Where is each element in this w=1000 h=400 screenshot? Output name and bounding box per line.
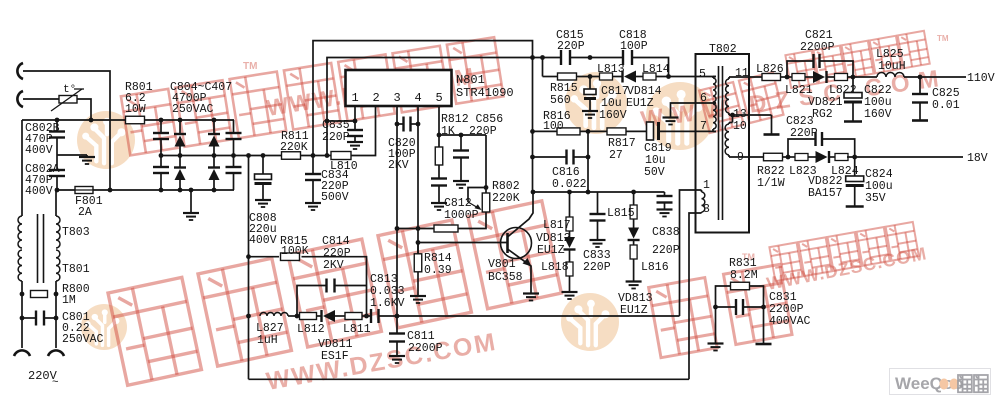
capacitor C817 electrolytic: [589, 77, 591, 90]
watermark logo circle T802 area: [646, 82, 714, 150]
resistor R814: [417, 243, 419, 255]
svg-text:100: 100: [543, 120, 564, 133]
svg-text:110V: 110V: [967, 72, 995, 85]
svg-text:220P: 220P: [557, 40, 585, 53]
svg-text:220P: 220P: [652, 244, 680, 257]
svg-text:6: 6: [700, 92, 707, 105]
inductor L817: [569, 192, 571, 217]
pin 11 wire: [729, 76, 762, 78]
svg-text:L811: L811: [343, 323, 371, 336]
svg-text:50V: 50V: [644, 166, 665, 179]
svg-text:1/1W: 1/1W: [757, 177, 785, 190]
svg-text:1K: 1K: [441, 125, 455, 138]
inductor L816: [633, 240, 635, 245]
T802 secondary winding 11-13: [726, 79, 729, 113]
rail continues to pin1 vertical: [379, 315, 680, 317]
svg-text:L812: L812: [297, 323, 325, 336]
series resistor to base row: [434, 225, 458, 232]
svg-text:0.01: 0.01: [932, 99, 960, 112]
base wire to V801: [418, 242, 508, 244]
svg-text:L814: L814: [642, 63, 670, 76]
top wire y=57.5 with C815/C818: [542, 58, 544, 77]
svg-text:T803: T803: [62, 226, 90, 239]
inductor L827: [260, 313, 288, 316]
svg-text:100P: 100P: [620, 40, 648, 53]
R816 row: [533, 130, 558, 132]
left rail lower: [21, 281, 23, 348]
svg-text:2200P: 2200P: [408, 342, 443, 355]
svg-text:560: 560: [550, 94, 571, 107]
pin 13/10 tap wires: [729, 114, 772, 116]
svg-text:TM: TM: [937, 34, 949, 43]
capacitor C811: [396, 316, 398, 334]
svg-text:1M: 1M: [62, 294, 76, 307]
watermark text A top-left: [121, 37, 504, 155]
svg-text:35V: 35V: [865, 192, 886, 205]
svg-text:STR41090: STR41090: [456, 86, 514, 100]
svg-text:2: 2: [373, 91, 380, 105]
capacitor C821 loop: [787, 61, 814, 77]
inductor L814: [643, 73, 656, 80]
svg-text:220P: 220P: [469, 125, 497, 138]
resistor R800: [20, 292, 25, 297]
inductor L824: [835, 154, 848, 161]
capacitor C835: [354, 121, 356, 130]
svg-text:7: 7: [700, 120, 707, 133]
capacitor C831: [716, 306, 737, 308]
T802 primary winding 5-6-7: [713, 78, 716, 102]
main bus A y=120: [22, 119, 125, 121]
diode VD811 ES1F: [320, 310, 322, 322]
svg-text:t°: t°: [63, 84, 76, 96]
svg-text:1uH: 1uH: [257, 334, 278, 347]
capacitor C813: [370, 309, 372, 323]
svg-text:220K: 220K: [492, 192, 520, 205]
junction dots bus A: [55, 118, 60, 123]
inductor L812: [300, 313, 317, 320]
watermark text C middle-right: [649, 264, 792, 357]
capacitor C802A: [49, 169, 65, 171]
svg-text:10uH: 10uH: [878, 60, 906, 73]
capacitor C808 electrolytic: [262, 156, 264, 175]
transformer T802 box: [696, 54, 750, 233]
resistor R831: [716, 286, 731, 307]
bus B y=190: [57, 189, 75, 191]
inductor L822: [835, 74, 848, 81]
svg-text:3: 3: [394, 91, 401, 105]
svg-text:2KV: 2KV: [323, 259, 344, 272]
svg-text:T801: T801: [62, 263, 90, 276]
svg-text:L816: L816: [641, 261, 669, 274]
R802 drop and pot: [485, 135, 487, 193]
watermark logo circle top-left: [77, 111, 135, 169]
inductor L813: [600, 73, 613, 80]
svg-text:220P: 220P: [322, 131, 350, 144]
diode VD822 BA157: [816, 151, 828, 163]
mid rail y=155.5 DC bus: [161, 155, 282, 157]
svg-text:11: 11: [735, 67, 749, 80]
svg-text:3: 3: [703, 203, 710, 216]
capacitor C815: [560, 50, 562, 65]
T802 pin6 ground wire: [671, 103, 717, 118]
svg-text:EU1Z: EU1Z: [626, 97, 654, 110]
svg-text:220P: 220P: [583, 261, 611, 274]
inductor L826: [762, 74, 781, 81]
diode VD821 RG2: [813, 71, 825, 83]
wire L810 to pin2: [351, 106, 376, 156]
resistor R801: [126, 116, 145, 124]
svg-text:1000P: 1000P: [444, 209, 479, 222]
svg-text:250VAC: 250VAC: [172, 103, 214, 116]
svg-text:10W: 10W: [125, 103, 146, 116]
svg-text:5: 5: [436, 91, 443, 105]
vertical x=588 down to rail: [587, 131, 589, 192]
svg-text:2A: 2A: [78, 206, 92, 219]
resistor R815 100K: [249, 256, 280, 258]
svg-text:TM: TM: [243, 61, 257, 72]
inductor L818: [569, 250, 571, 262]
watermark logo circle middle (C817 area): [565, 72, 627, 134]
feedback wire from mid rail up and over to x=532: [313, 41, 533, 192]
pin 1 wire to primary return: [680, 190, 702, 316]
svg-text:T802: T802: [709, 43, 737, 56]
wire thermistor to bus: [77, 99, 91, 120]
fuse F801: [75, 187, 93, 194]
capacitor C825: [919, 77, 921, 94]
svg-text:400V: 400V: [25, 185, 53, 198]
AC plug connector bottom: [17, 91, 23, 107]
C816 row y=157: [533, 156, 567, 158]
svg-text:~: ~: [52, 377, 59, 389]
svg-text:2200P: 2200P: [800, 41, 835, 54]
capacitor C814 loop: [297, 286, 327, 317]
inductor L815: [633, 192, 635, 206]
svg-text:400VAC: 400VAC: [769, 315, 811, 328]
svg-text:27: 27: [609, 149, 623, 162]
pin 3 long vertical: [396, 106, 398, 316]
svg-text:400V: 400V: [249, 234, 277, 247]
svg-text:10: 10: [733, 120, 747, 133]
svg-text:L815: L815: [607, 207, 635, 220]
resistor R817: [607, 128, 626, 135]
bridge column capacitor 1: [160, 120, 162, 133]
AC plug connector top: [17, 63, 23, 79]
watermark logo circle bottom-middle: [561, 293, 619, 351]
svg-text:L818: L818: [541, 261, 569, 274]
inductor L821: [792, 74, 805, 81]
diode VD814 EU1Z: [621, 71, 623, 83]
potentiometer R802: [482, 193, 490, 212]
svg-text:V801: V801: [488, 258, 516, 271]
svg-text:EU1Z: EU1Z: [537, 244, 565, 257]
svg-text:RG2: RG2: [812, 108, 833, 121]
svg-text:220K: 220K: [280, 141, 308, 154]
pin 3 wire down to bottom rail: [689, 213, 702, 379]
inductor L811: [345, 313, 362, 320]
capacitor C833: [597, 192, 599, 214]
svg-text:1: 1: [352, 91, 359, 105]
capacitor C856: [460, 135, 462, 151]
inductor L823: [795, 154, 808, 161]
svg-text:5: 5: [699, 68, 706, 81]
watermark text B bottom-left large: [108, 201, 561, 385]
inductor L810: [331, 152, 351, 160]
svg-text:2KV: 2KV: [388, 159, 409, 172]
capacitor C822 electrolytic: [852, 77, 854, 93]
svg-text:1: 1: [703, 179, 710, 192]
pin 4 vertical: [417, 106, 419, 254]
secondary common rail y=192: [533, 191, 665, 193]
R815(560) rail y=76.5: [543, 76, 559, 78]
watermark logo circle bottom-left: [81, 304, 127, 350]
svg-text:4: 4: [415, 91, 422, 105]
svg-text:1.6KV: 1.6KV: [370, 297, 405, 310]
left rail down to transformer: [21, 120, 23, 216]
svg-text:160V: 160V: [864, 108, 892, 121]
inductor L825: [877, 73, 904, 78]
terminal bar C831 right: [763, 307, 765, 344]
capacitor C838: [664, 192, 666, 196]
svg-text:C838: C838: [652, 226, 680, 239]
svg-text:400V: 400V: [25, 144, 53, 157]
common-mode transformer T803/T801: [18, 216, 22, 248]
svg-text:BC358: BC358: [488, 271, 523, 284]
capacitor C819 series electrolytic: [647, 122, 654, 140]
inner top wire y=57.5: [327, 58, 543, 156]
bridge rectifier diode column 3: [213, 120, 215, 134]
svg-text:L813: L813: [597, 63, 625, 76]
svg-text:100K: 100K: [281, 245, 309, 258]
svg-text:EU1Z: EU1Z: [620, 304, 648, 317]
junction dots on x=532 vertical: [530, 129, 535, 134]
capacitor C820: [402, 117, 404, 132]
bottom connectors 220V: [14, 350, 30, 356]
svg-text:220P: 220P: [790, 127, 818, 140]
capacitor C834: [312, 156, 314, 175]
ground L818: [562, 291, 578, 293]
T802 winding 1-3: [702, 192, 705, 212]
capacitor C802B: [56, 120, 58, 131]
thermistor RT: [59, 96, 77, 104]
wire R802 bottom to row 228.5: [458, 212, 486, 229]
bridge rectifier diode column 2: [179, 120, 181, 134]
wire to thermistor: [23, 98, 59, 100]
bottom rail: [249, 378, 690, 380]
svg-text:18V: 18V: [967, 152, 988, 165]
resistor R811: [282, 152, 301, 160]
capacitor C824 electrolytic: [854, 157, 856, 176]
ground C831 left: [715, 307, 717, 344]
right spine lower: [55, 190, 57, 216]
WeeQoo logo bottom-right: [890, 369, 991, 395]
capacitor C818: [622, 50, 624, 65]
svg-text:160V: 160V: [599, 109, 627, 122]
R802 wiper arrow: [468, 188, 486, 203]
resistor R812: [438, 135, 440, 147]
svg-text:BA157: BA157: [808, 187, 843, 200]
pin 1 wire and junction: [354, 106, 356, 121]
IC N801 STR41090: [346, 70, 452, 106]
svg-text:0.39: 0.39: [424, 264, 452, 277]
ground from bus B: [190, 190, 192, 213]
svg-text:ES1F: ES1F: [321, 350, 349, 363]
svg-text:L826: L826: [756, 63, 784, 76]
resistor R822: [764, 153, 783, 161]
T802 secondary winding 10-9: [725, 124, 729, 155]
svg-text:500V: 500V: [321, 191, 349, 204]
capacitor C801: [20, 316, 25, 321]
T802 core lines: [718, 66, 720, 220]
diode VD813 EU1Z: [633, 219, 635, 228]
svg-text:L817: L817: [543, 219, 571, 232]
svg-text:N801: N801: [456, 73, 485, 87]
watermark text D top-right: [699, 72, 783, 133]
pin 9 wire: [729, 156, 764, 158]
svg-text:0.022: 0.022: [552, 178, 587, 191]
pin 5 vertical and row: [438, 106, 440, 135]
transistor V801 BC358: [501, 228, 532, 259]
capacitor C812: [431, 177, 447, 179]
ground VD813 column: [626, 280, 642, 282]
long vertical from mid rail x=248.5: [248, 156, 250, 380]
svg-text:8.2M: 8.2M: [730, 269, 758, 282]
capacitor C823 loop: [788, 139, 816, 157]
wire from top connector: [23, 71, 110, 190]
ground for C802 midpoint: [57, 154, 87, 156]
diode VD812 EU1Z: [569, 231, 571, 237]
svg-text:250VAC: 250VAC: [62, 333, 104, 346]
bridge column capacitor 4: [233, 120, 235, 133]
